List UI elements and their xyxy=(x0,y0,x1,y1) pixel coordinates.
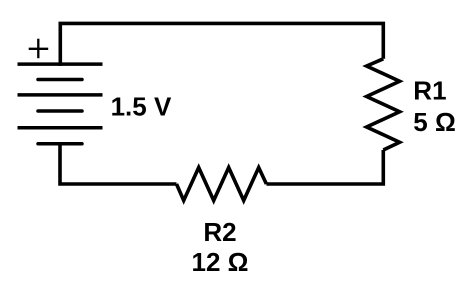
plus sign (+) polarity mark xyxy=(29,48,49,50)
wire: bottom rail left segment up to battery - terminal xyxy=(60,144,177,184)
svg-text:5 Ω: 5 Ω xyxy=(413,107,456,137)
battery B1 plate long 2 xyxy=(18,93,103,97)
resistor R2 xyxy=(177,168,267,201)
svg-text:1.5 V: 1.5 V xyxy=(111,92,172,122)
battery B1 plate long 3 xyxy=(18,126,103,130)
resistor R1 xyxy=(367,59,400,150)
svg-text:R2: R2 xyxy=(203,217,236,247)
battery B1 plate short 1 xyxy=(38,78,82,82)
svg-text:12 Ω: 12 Ω xyxy=(192,247,249,277)
wire: top loop from battery + terminal to R1 top xyxy=(60,23,383,66)
battery B1 plate long 1 (+) xyxy=(18,62,103,66)
battery B1 plate short 2 xyxy=(38,109,82,113)
battery B1 plate short 3 (-) xyxy=(38,142,82,146)
wire: R1 bottom to bottom rail right segment xyxy=(266,150,383,184)
svg-text:R1: R1 xyxy=(413,75,446,105)
